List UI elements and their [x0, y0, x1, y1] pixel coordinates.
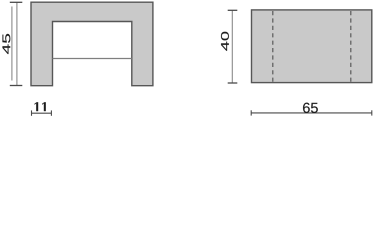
dim 11 line	[32, 112, 52, 114]
dim 45 line B	[11, 7, 13, 81]
dim 40 bottom tick	[228, 82, 238, 84]
dim 40 label	[221, 32, 229, 51]
dim 11 left tick	[31, 110, 33, 115]
dim 45 bottom tick	[10, 85, 22, 87]
dim 11 right tick	[50, 110, 52, 115]
table side view body	[31, 2, 153, 86]
dim 65 left tick	[250, 110, 252, 115]
dim 65 label	[303, 103, 318, 113]
shelf line	[53, 58, 132, 60]
dim 40 top tick	[228, 9, 238, 11]
dim 40 line	[231, 10, 233, 83]
hidden leg edge right (dashed)	[350, 11, 352, 82]
hidden leg edge left (dashed)	[272, 11, 274, 82]
dim 45 top tick	[10, 1, 22, 3]
dim 65 right tick	[371, 110, 373, 115]
dim 11 label	[35, 102, 46, 111]
dim 65 line	[251, 112, 372, 114]
dim 45 label	[2, 34, 10, 54]
dim 45 line A	[16, 2, 18, 85]
table top view	[252, 10, 372, 83]
